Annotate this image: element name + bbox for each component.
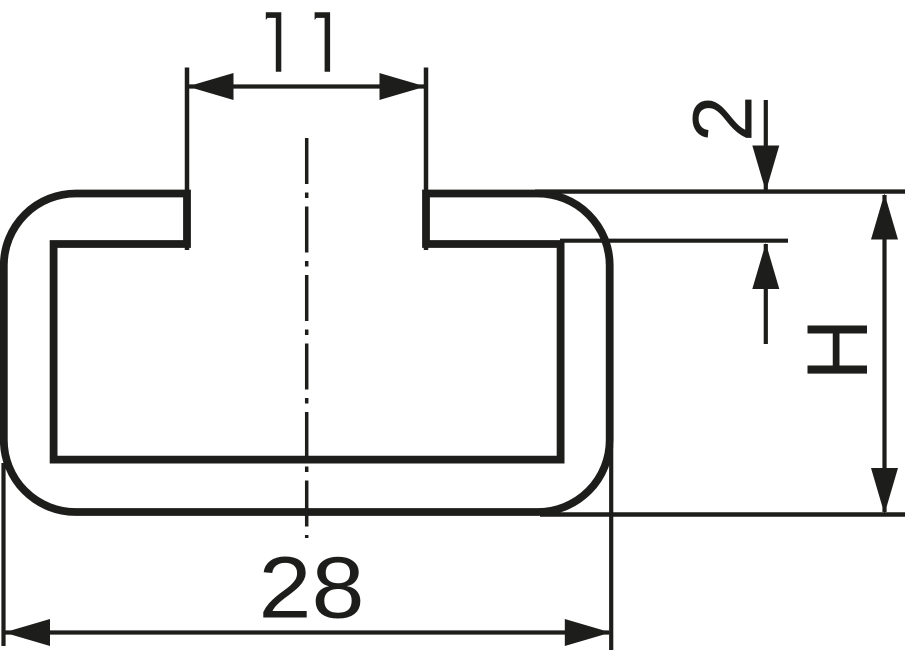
svg-text:H: H bbox=[790, 318, 886, 380]
svg-text:28: 28 bbox=[259, 540, 365, 637]
svg-text:2: 2 bbox=[676, 95, 770, 142]
